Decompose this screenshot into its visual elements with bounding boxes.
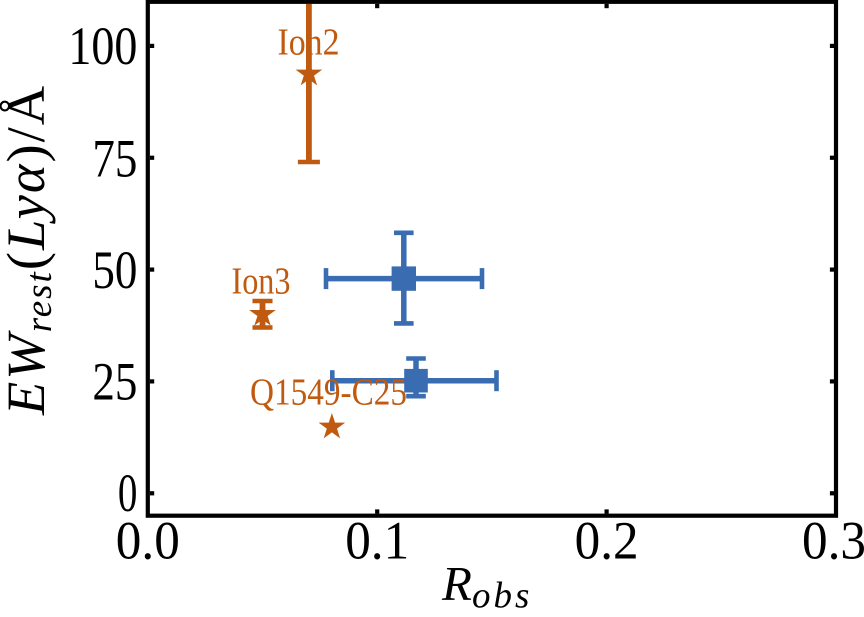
svg-text:50: 50: [92, 240, 137, 300]
y axis right ticks: [830, 44, 834, 496]
blue square marker 2: [404, 369, 428, 393]
svg-text:100: 100: [68, 16, 137, 76]
blue square point 1 error bars: [326, 233, 482, 324]
svg-text:Ion2: Ion2: [278, 21, 340, 63]
y axis left ticks: [150, 44, 154, 496]
svg-text:0.1: 0.1: [345, 510, 409, 570]
svg-text:25: 25: [92, 352, 137, 412]
svg-text:0.2: 0.2: [575, 510, 639, 570]
Ion3 star marker: [249, 300, 276, 325]
Q1549-C25 star marker: [319, 413, 346, 438]
svg-text:Ion3: Ion3: [232, 260, 291, 302]
svg-text:0.3: 0.3: [802, 510, 864, 570]
Ion2 star marker: [296, 60, 323, 85]
axes frame: [148, 2, 836, 516]
Ion2 error bar: [298, 4, 320, 162]
x axis top ticks: [375, 4, 609, 8]
blue square point 2 error bars: [332, 359, 496, 397]
svg-text:EWrest(Lyα)/Å: EWrest(Lyα)/Å: [0, 84, 60, 416]
svg-text:Q1549-C25: Q1549-C25: [250, 372, 407, 414]
blue square marker 1: [392, 266, 416, 290]
svg-text:0.0: 0.0: [116, 510, 180, 570]
x axis bottom ticks: [375, 509, 609, 513]
svg-text:75: 75: [92, 128, 137, 188]
Ion3 error bar: [253, 301, 273, 328]
